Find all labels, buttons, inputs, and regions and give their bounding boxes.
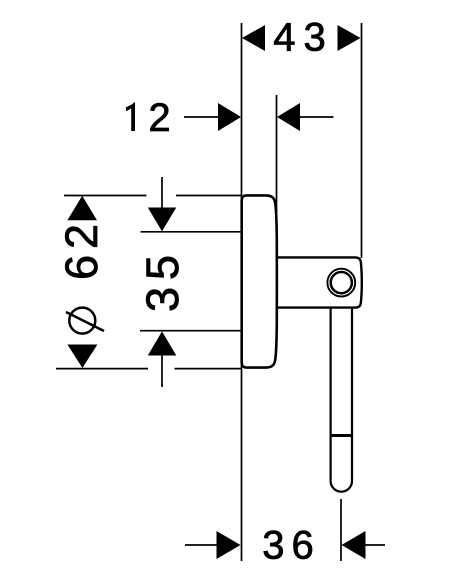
svg-text:43: 43 (273, 16, 334, 60)
svg-text:36: 36 (262, 524, 321, 568)
svg-text:2: 2 (148, 96, 170, 140)
svg-text:62: 62 (56, 218, 107, 280)
svg-text:35: 35 (137, 248, 188, 312)
